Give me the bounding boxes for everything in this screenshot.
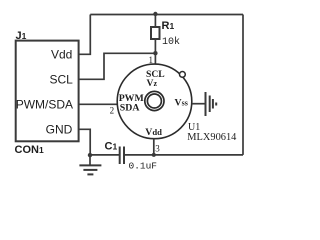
wire SCL node to sensor pin 1 bbox=[154, 53, 156, 65]
svg-text:0.1uF: 0.1uF bbox=[129, 160, 158, 171]
svg-text:J1: J1 bbox=[16, 30, 27, 42]
sensor internal label Vss bbox=[175, 98, 188, 109]
resistor R1 body bbox=[151, 27, 160, 39]
pin number 3 (sensor Vdd) bbox=[155, 143, 160, 153]
sensor U1 reference label bbox=[188, 122, 200, 133]
wire SCL: J1 pin to R1/sensor node bbox=[79, 53, 156, 79]
sensor U1 case tab marker bbox=[180, 72, 186, 78]
pin label Vdd (J1) bbox=[51, 48, 72, 62]
sensor part number MLX90614 bbox=[187, 132, 237, 143]
sensor internal label SCL bbox=[146, 69, 165, 80]
wire C1 to bottom rail right bbox=[124, 154, 243, 156]
sensor internal label Vdd bbox=[145, 127, 162, 138]
wire GND: J1 pin to ground node bbox=[79, 129, 91, 155]
pin label SCL (J1) bbox=[49, 73, 73, 87]
wire sensor Vss to case ground bbox=[192, 103, 205, 105]
sensor internal label SDA bbox=[120, 102, 140, 113]
pin number 1 (sensor SCL) bbox=[149, 55, 154, 65]
svg-text:Vdd: Vdd bbox=[51, 48, 72, 62]
junction dot at sensor pin 3 / bottom rail bbox=[152, 153, 156, 157]
sensor U1 IR window inner ring bbox=[147, 94, 161, 108]
pin number 2 (sensor PWM/SDA) bbox=[110, 106, 115, 116]
junction dot at top rail / R1 bbox=[153, 12, 157, 16]
svg-text:C1: C1 bbox=[105, 140, 118, 152]
junction dot at GND node bbox=[88, 153, 92, 157]
connector J1 reference label bbox=[16, 30, 27, 42]
svg-text:Vdd: Vdd bbox=[145, 127, 162, 138]
pin label GND (J1) bbox=[46, 123, 73, 137]
svg-text:3: 3 bbox=[155, 143, 160, 153]
sensor U1 IR window outer ring bbox=[145, 91, 164, 110]
pin label PWM/SDA (J1) bbox=[16, 97, 73, 111]
ground symbol (sideways, at Vss) bbox=[206, 92, 217, 116]
sensor U1 TO-39 can outline bbox=[117, 64, 192, 139]
capacitor C1 plates bbox=[120, 147, 124, 165]
svg-text:SCL: SCL bbox=[49, 73, 73, 87]
junction dot SCL node below R1 bbox=[153, 51, 157, 55]
svg-text:MLX90614: MLX90614 bbox=[187, 132, 237, 143]
svg-text:1: 1 bbox=[149, 55, 154, 65]
sensor internal label PWM bbox=[119, 93, 144, 104]
resistor R1 reference label bbox=[162, 20, 175, 32]
capacitor C1 reference label bbox=[105, 140, 118, 152]
resistor R1 value 10k bbox=[162, 36, 180, 48]
connector J1 box bbox=[16, 41, 79, 142]
capacitor C1 value 0.1uF bbox=[129, 160, 158, 171]
svg-text:CON1: CON1 bbox=[15, 144, 44, 156]
wire right side Vdd rail bbox=[242, 15, 244, 155]
svg-text:PWM/SDA: PWM/SDA bbox=[16, 97, 73, 111]
ground symbol (bottom left) bbox=[79, 155, 101, 175]
resistor R1 wire top bbox=[154, 14, 156, 27]
wire PWM/SDA: J1 pin to sensor pin 2 bbox=[79, 103, 118, 105]
svg-text:Vz: Vz bbox=[147, 78, 158, 89]
svg-text:Vss: Vss bbox=[175, 98, 188, 109]
svg-text:2: 2 bbox=[110, 106, 115, 116]
sensor internal label Vz bbox=[147, 78, 158, 89]
svg-text:GND: GND bbox=[46, 123, 73, 137]
svg-text:R1: R1 bbox=[162, 20, 175, 32]
resistor R1 wire bottom bbox=[154, 39, 156, 53]
wire sensor pin 3 to bottom rail bbox=[153, 139, 155, 155]
svg-text:SDA: SDA bbox=[120, 102, 140, 113]
wire top Vdd rail bbox=[90, 14, 243, 16]
wire Vdd: J1 pin to top rail bbox=[79, 15, 91, 55]
svg-text:10k: 10k bbox=[162, 36, 180, 48]
connector footprint label CON1 bbox=[15, 144, 44, 156]
wire ground node to C1 bbox=[90, 154, 119, 156]
